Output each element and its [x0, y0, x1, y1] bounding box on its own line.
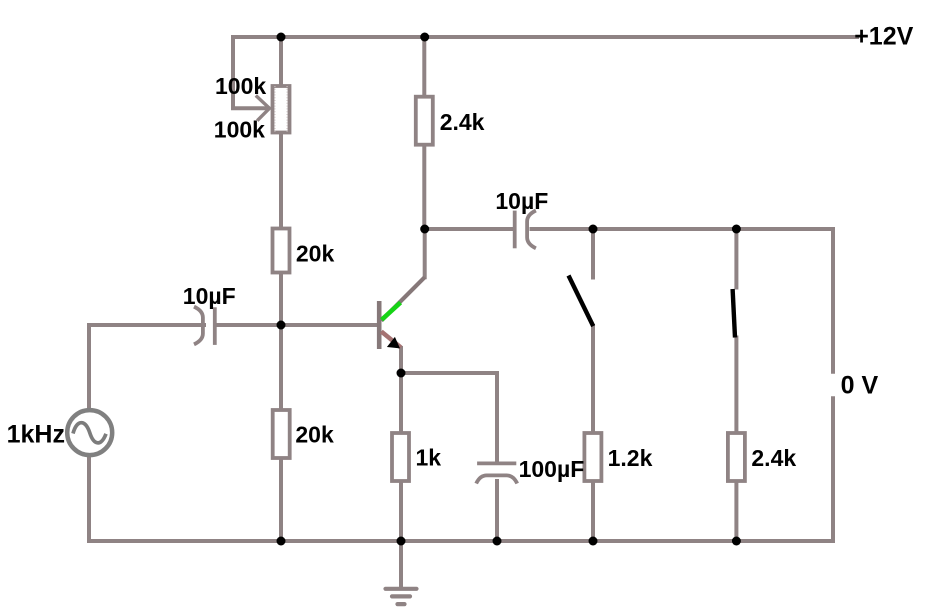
svg-text:100µF: 100µF	[519, 456, 585, 482]
svg-text:0 V: 0 V	[841, 372, 879, 400]
svg-text:10µF: 10µF	[183, 283, 236, 309]
svg-text:1kHz: 1kHz	[7, 420, 65, 448]
svg-text:100k: 100k	[215, 73, 266, 99]
svg-text:20k: 20k	[296, 241, 335, 267]
svg-text:20k: 20k	[295, 422, 334, 448]
svg-text:1k: 1k	[416, 445, 442, 471]
svg-text:100k: 100k	[214, 116, 265, 142]
svg-text:2.4k: 2.4k	[440, 109, 485, 135]
svg-text:1.2k: 1.2k	[608, 445, 653, 471]
svg-text:10µF: 10µF	[495, 188, 548, 214]
svg-text:2.4k: 2.4k	[751, 445, 796, 471]
svg-text:+12V: +12V	[854, 23, 913, 51]
